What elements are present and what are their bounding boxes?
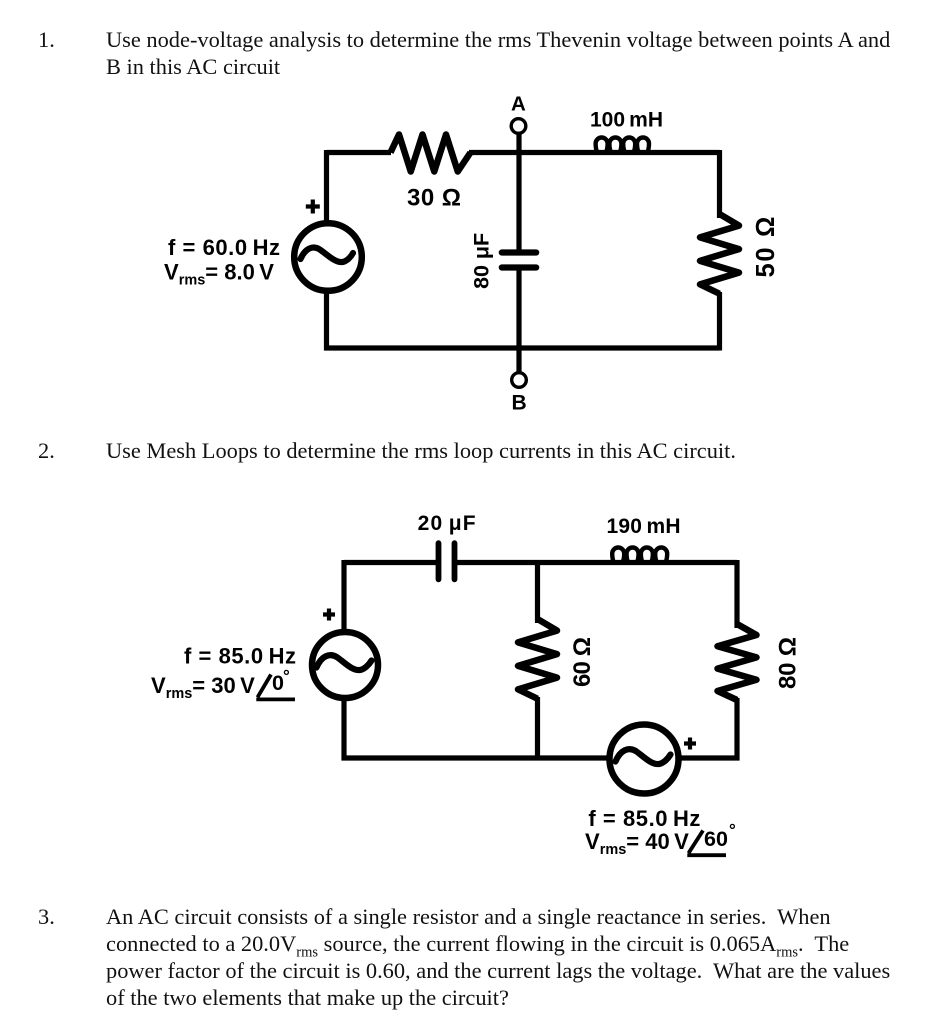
svg-text:100 mH: 100 mH	[590, 109, 663, 132]
svg-text:60 Ω: 60 Ω	[569, 637, 596, 687]
svg-text:20 μF: 20 μF	[418, 512, 476, 535]
svg-text:f = 60.0 Hz: f = 60.0 Hz	[168, 235, 280, 260]
svg-text:190 mH: 190 mH	[607, 515, 681, 538]
svg-text:30 Ω: 30 Ω	[407, 185, 461, 212]
svg-text:f = 85.0 Hz: f = 85.0 Hz	[588, 806, 700, 831]
svg-text:f = 85.0 Hz: f = 85.0 Hz	[184, 644, 296, 669]
svg-text:80 μF: 80 μF	[470, 233, 494, 289]
svg-text:°: °	[283, 667, 290, 686]
svg-text:50 Ω: 50 Ω	[752, 217, 780, 278]
svg-text:80 Ω: 80 Ω	[775, 637, 802, 689]
svg-text:Vrms= 30 V: Vrms= 30 V	[151, 673, 255, 702]
svg-text:°: °	[729, 821, 736, 840]
svg-text:A: A	[511, 93, 526, 116]
svg-text:Vrms= 40 V: Vrms= 40 V	[585, 829, 689, 858]
svg-text:60: 60	[704, 827, 728, 851]
svg-text:B: B	[512, 392, 527, 415]
svg-text:Vrms= 8.0 V: Vrms= 8.0 V	[164, 260, 274, 289]
